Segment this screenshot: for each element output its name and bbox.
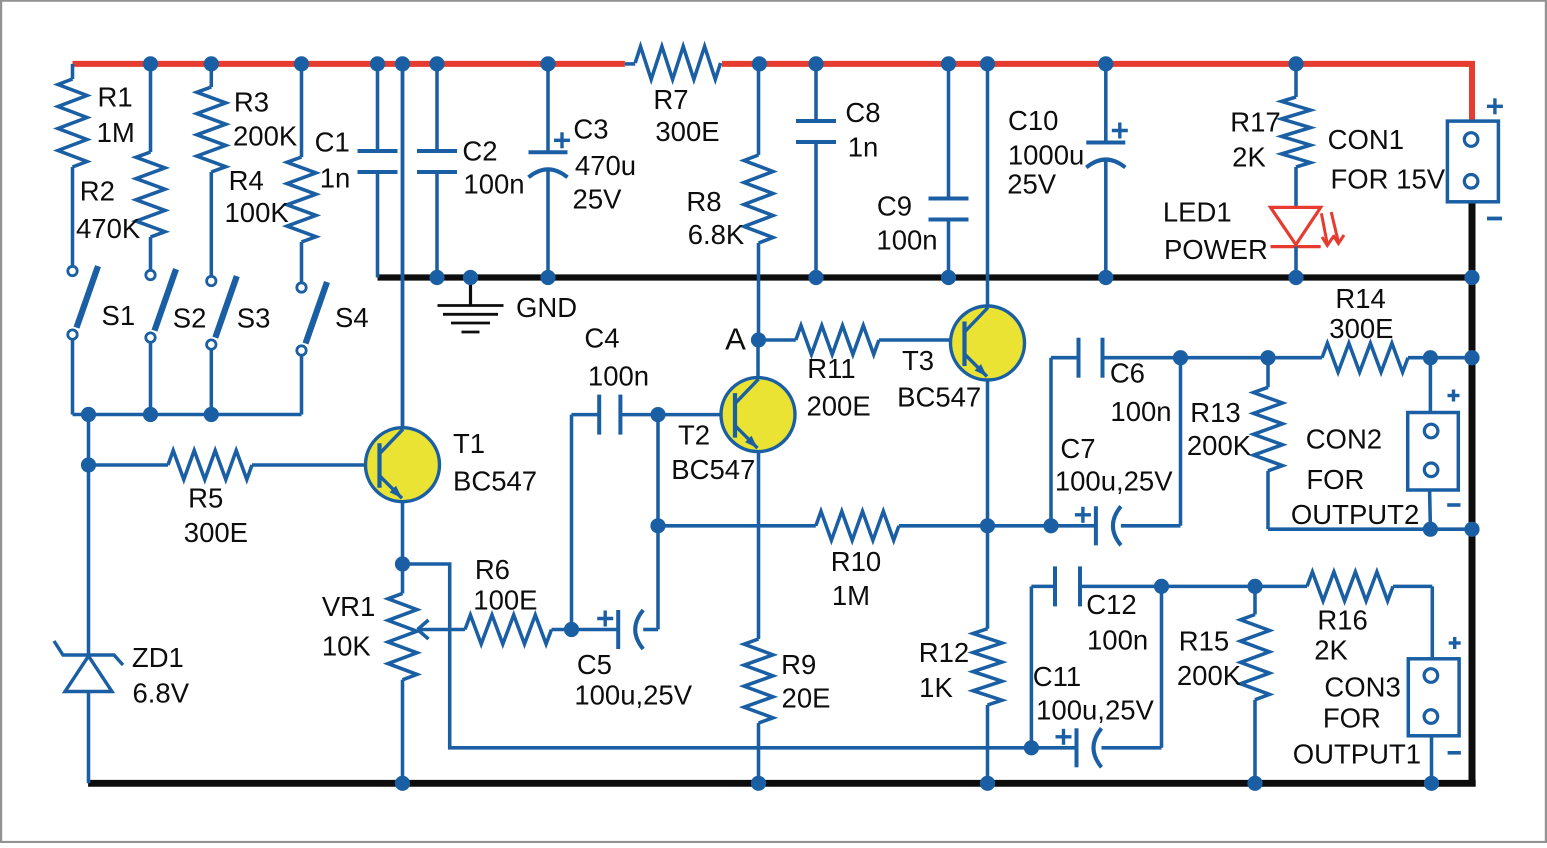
svg-text:POWER: POWER: [1164, 234, 1268, 265]
svg-text:100n: 100n: [1087, 625, 1148, 656]
svg-text:1M: 1M: [97, 117, 135, 148]
svg-text:300E: 300E: [1329, 313, 1393, 344]
svg-text:R15: R15: [1179, 626, 1229, 657]
svg-text:300E: 300E: [184, 517, 248, 548]
svg-text:T1: T1: [453, 428, 485, 459]
svg-text:R8: R8: [686, 186, 721, 217]
svg-text:C8: C8: [845, 97, 880, 128]
svg-text:C12: C12: [1086, 589, 1136, 620]
svg-text:S2: S2: [173, 303, 207, 334]
svg-text:20E: 20E: [782, 683, 831, 714]
svg-text:100u,25V: 100u,25V: [1036, 695, 1154, 726]
svg-text:R16: R16: [1317, 605, 1367, 636]
svg-text:R13: R13: [1190, 397, 1240, 428]
svg-text:A: A: [725, 322, 746, 357]
svg-text:C1: C1: [315, 127, 350, 158]
svg-text:R11: R11: [807, 353, 855, 384]
svg-text:R2: R2: [80, 176, 115, 207]
svg-text:S1: S1: [102, 300, 136, 331]
svg-text:CON3: CON3: [1324, 672, 1400, 703]
svg-text:100n: 100n: [1110, 396, 1171, 427]
svg-text:200K: 200K: [233, 121, 298, 152]
svg-text:100K: 100K: [225, 197, 290, 228]
svg-text:300E: 300E: [655, 116, 719, 147]
svg-text:BC547: BC547: [453, 466, 537, 497]
svg-text:1n: 1n: [320, 163, 351, 194]
svg-text:470u: 470u: [575, 150, 636, 181]
svg-text:R6: R6: [475, 554, 510, 585]
svg-text:C4: C4: [584, 323, 619, 354]
svg-text:R14: R14: [1335, 283, 1385, 314]
svg-text:GND: GND: [516, 292, 577, 323]
svg-text:R10: R10: [831, 546, 881, 577]
svg-text:C10: C10: [1008, 105, 1058, 136]
svg-text:OUTPUT2: OUTPUT2: [1291, 499, 1419, 530]
svg-text:R17: R17: [1230, 107, 1280, 138]
svg-text:R12: R12: [919, 637, 969, 668]
svg-text:200K: 200K: [1177, 660, 1242, 691]
svg-text:C7: C7: [1060, 433, 1095, 464]
svg-text:C3: C3: [573, 114, 608, 145]
svg-text:C9: C9: [877, 191, 912, 222]
svg-text:1M: 1M: [832, 580, 870, 611]
svg-text:C2: C2: [462, 136, 497, 167]
svg-text:C11: C11: [1033, 661, 1081, 692]
svg-text:10K: 10K: [322, 631, 372, 662]
svg-text:R7: R7: [653, 84, 688, 115]
svg-text:100u,25V: 100u,25V: [574, 680, 692, 711]
svg-text:R1: R1: [98, 82, 133, 113]
svg-text:1K: 1K: [919, 672, 953, 703]
svg-text:BC547: BC547: [671, 454, 755, 485]
svg-text:FOR: FOR: [1323, 703, 1381, 734]
svg-text:100n: 100n: [463, 169, 524, 200]
svg-text:R5: R5: [188, 483, 223, 514]
svg-text:2K: 2K: [1314, 635, 1348, 666]
svg-text:VR1: VR1: [322, 591, 376, 622]
svg-text:25V: 25V: [573, 184, 623, 215]
svg-text:100n: 100n: [876, 225, 937, 256]
svg-text:ZD1: ZD1: [132, 642, 184, 673]
svg-text:LED1: LED1: [1163, 197, 1232, 228]
svg-text:1n: 1n: [848, 132, 879, 163]
svg-text:R9: R9: [781, 649, 816, 680]
svg-text:CON2: CON2: [1306, 424, 1382, 455]
svg-text:OUTPUT1: OUTPUT1: [1293, 739, 1421, 770]
svg-text:CON1: CON1: [1328, 124, 1404, 155]
svg-text:100u,25V: 100u,25V: [1055, 466, 1173, 497]
svg-text:S4: S4: [335, 302, 369, 333]
svg-text:200E: 200E: [806, 391, 870, 422]
svg-text:2K: 2K: [1232, 142, 1266, 173]
svg-text:1000u: 1000u: [1008, 140, 1084, 171]
svg-text:470K: 470K: [76, 213, 141, 244]
svg-text:R3: R3: [234, 87, 269, 118]
svg-text:FOR 15V: FOR 15V: [1330, 164, 1445, 195]
svg-text:200K: 200K: [1187, 430, 1252, 461]
svg-text:BC547: BC547: [897, 382, 981, 413]
svg-text:6.8V: 6.8V: [133, 678, 190, 709]
svg-text:C5: C5: [577, 649, 612, 680]
svg-text:FOR: FOR: [1306, 464, 1364, 495]
svg-text:6.8K: 6.8K: [688, 219, 745, 250]
svg-text:R4: R4: [229, 165, 264, 196]
svg-text:100E: 100E: [473, 585, 537, 616]
svg-text:T3: T3: [902, 345, 934, 376]
svg-text:25V: 25V: [1007, 169, 1057, 200]
svg-text:C6: C6: [1110, 358, 1145, 389]
svg-text:S3: S3: [237, 303, 271, 334]
svg-text:T2: T2: [678, 420, 710, 451]
svg-text:100n: 100n: [588, 361, 649, 392]
